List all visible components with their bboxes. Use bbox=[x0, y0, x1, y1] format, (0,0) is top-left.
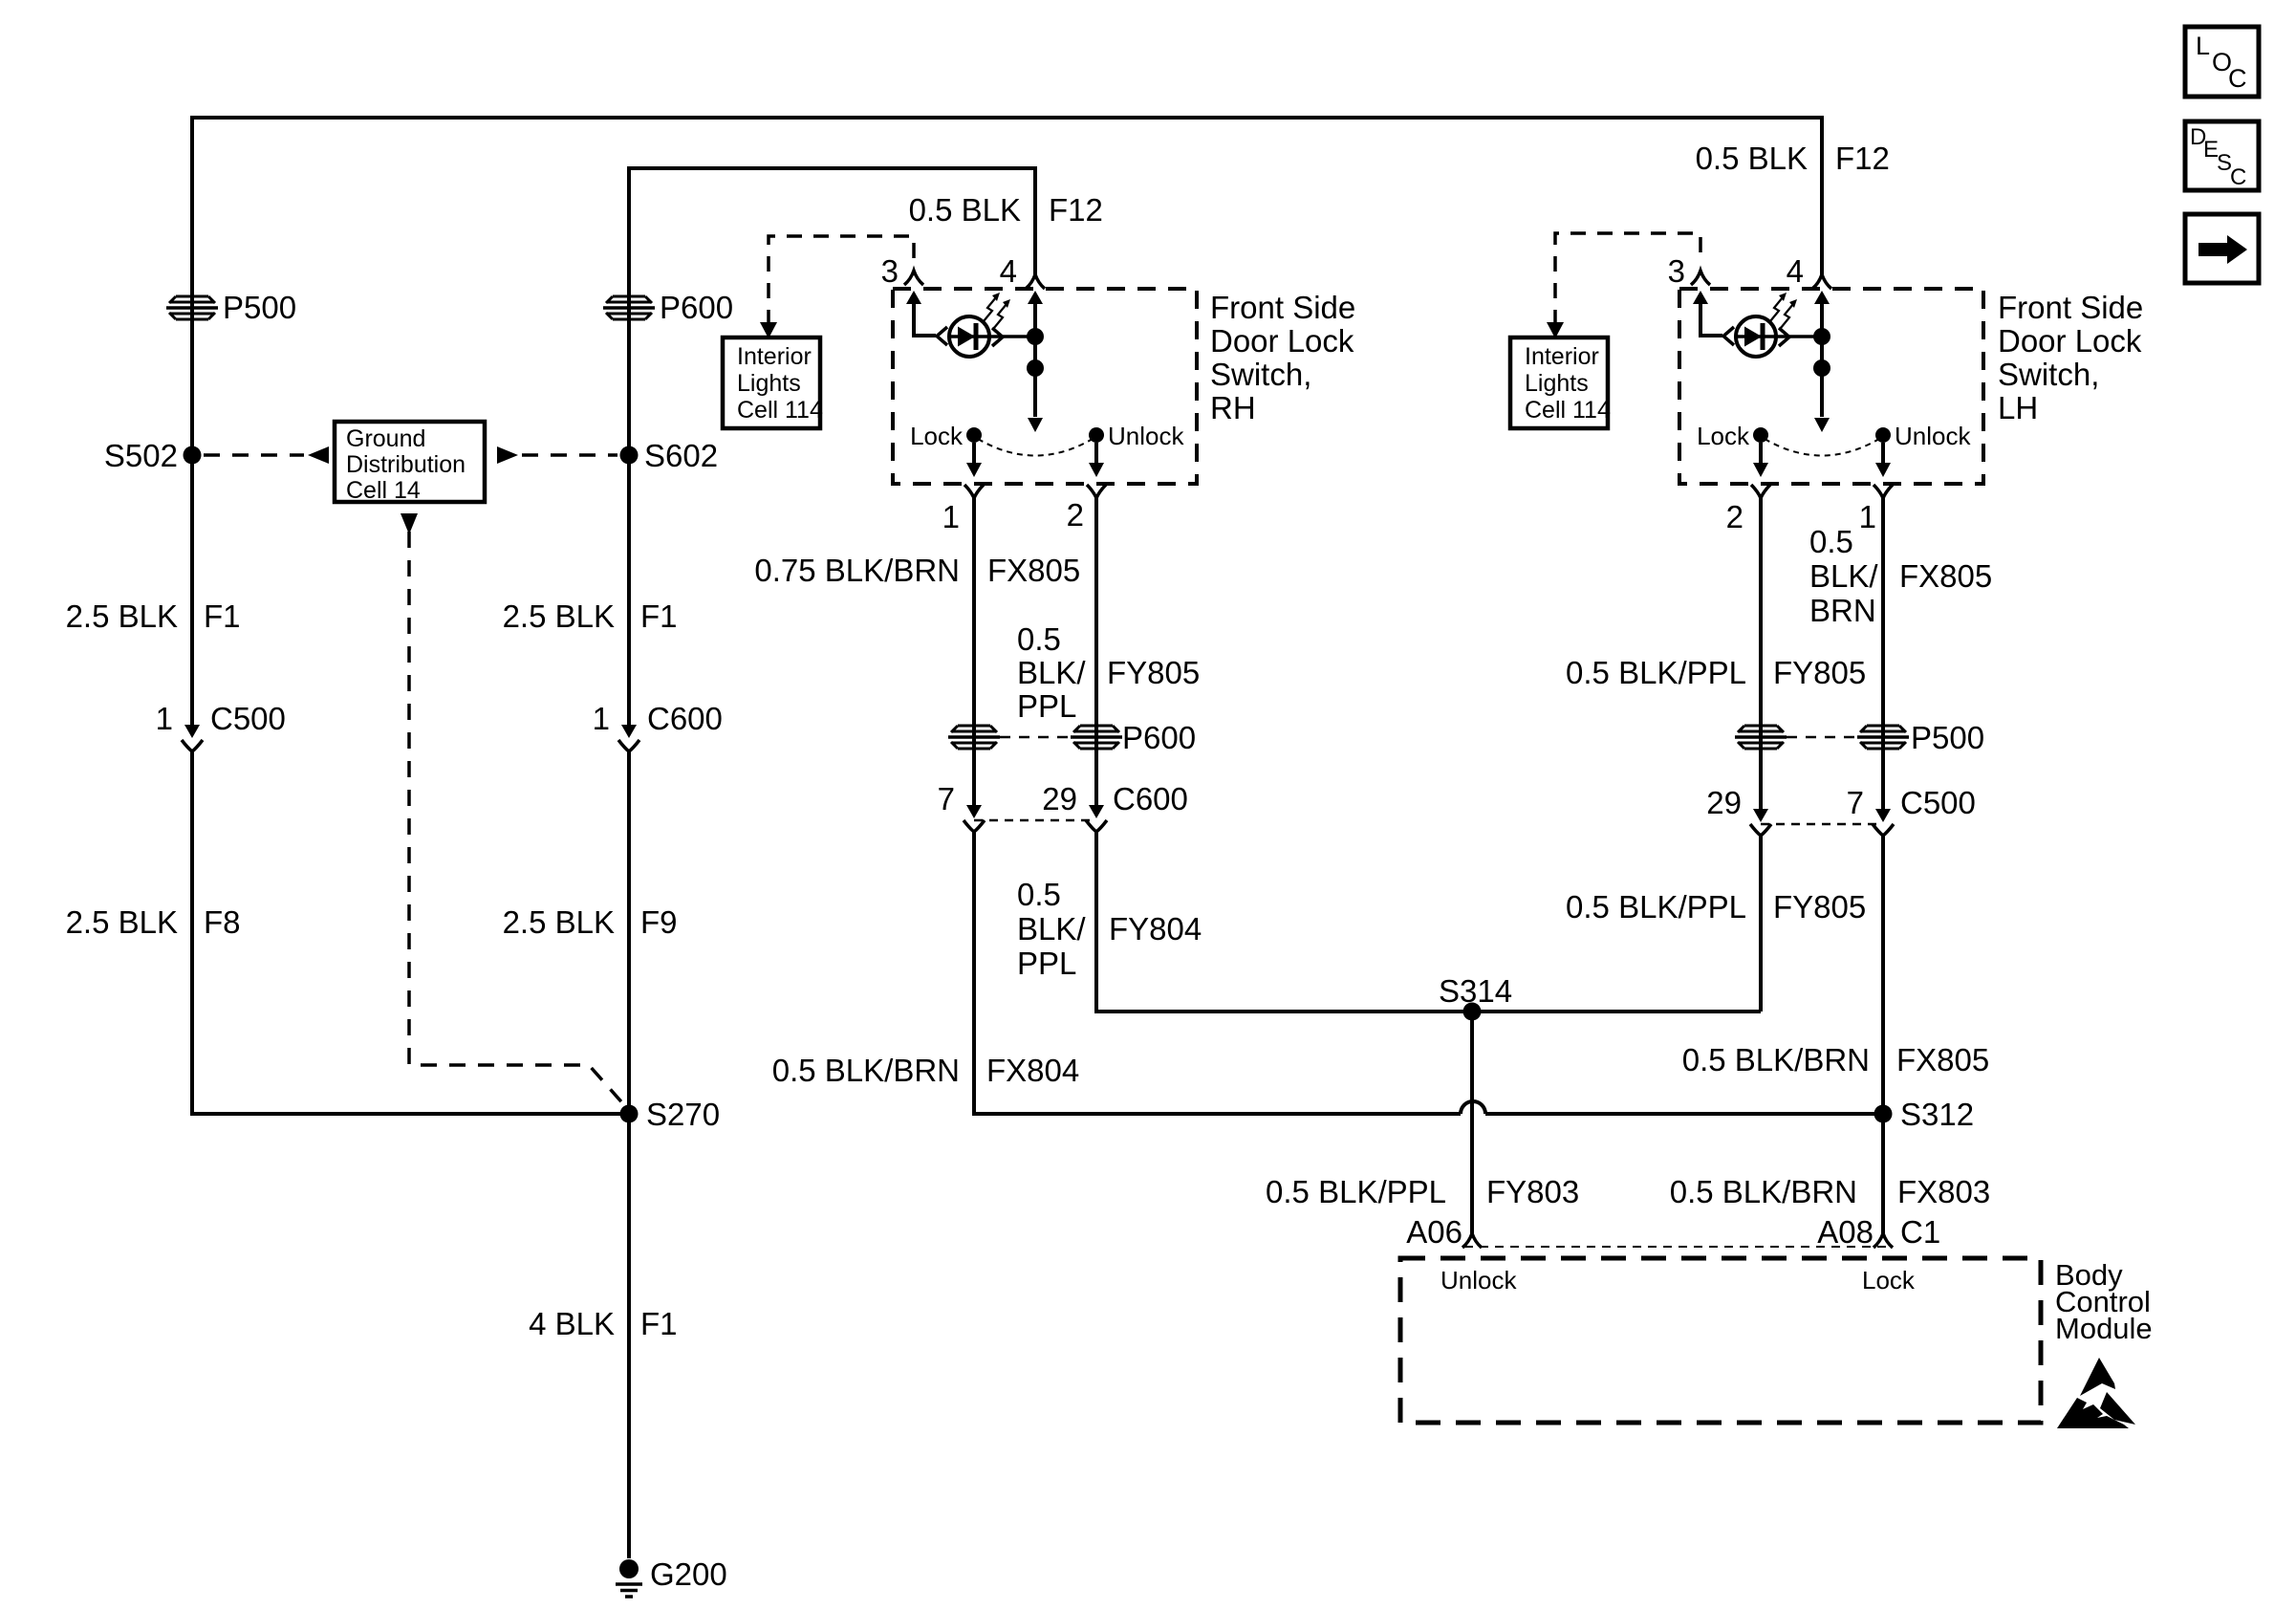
svg-text:C: C bbox=[2230, 164, 2246, 190]
wire left ground column lower (2.5 BLK F8 down to bottom corner and right to S270) bbox=[192, 751, 629, 1114]
svg-text:Cell 114: Cell 114 bbox=[1525, 397, 1611, 424]
svg-text:FY805: FY805 bbox=[1107, 655, 1200, 690]
ground distribution box Cell 14 bbox=[335, 422, 485, 502]
svg-text:4: 4 bbox=[1000, 253, 1017, 289]
svg-text:BLK/: BLK/ bbox=[1017, 911, 1086, 946]
pin 1 connector half below box bbox=[964, 485, 984, 498]
svg-text:FY804: FY804 bbox=[1109, 911, 1202, 946]
svg-text:A06: A06 bbox=[1406, 1214, 1462, 1250]
svg-text:1: 1 bbox=[156, 701, 173, 736]
svg-text:0.5: 0.5 bbox=[1017, 621, 1061, 657]
dashed link S502 to ground distribution box bbox=[204, 453, 304, 457]
wire LH pin1 FX805 to S312 bbox=[1881, 836, 1885, 1233]
svg-text:BRN: BRN bbox=[1809, 593, 1876, 628]
wire middle ground column upper (P600/S602 to C600) bbox=[627, 166, 631, 725]
pin 4 connector half bbox=[1026, 274, 1045, 289]
connector C600 pin 29 bbox=[1089, 805, 1104, 818]
svg-text:P600: P600 bbox=[660, 290, 733, 325]
svg-text:Lights: Lights bbox=[737, 370, 801, 397]
wire left ground column upper (P500/S502 to C500) bbox=[190, 116, 194, 725]
svg-text:1: 1 bbox=[593, 701, 610, 736]
wire S312 row right part bbox=[1485, 1112, 1883, 1116]
svg-text:FY803: FY803 bbox=[1486, 1174, 1579, 1209]
Lock contact bbox=[966, 427, 982, 443]
svg-text:0.5 BLK/BRN: 0.5 BLK/BRN bbox=[1682, 1042, 1870, 1077]
BCM pin C1 connector half bbox=[1874, 1233, 1893, 1248]
svg-text:F1: F1 bbox=[640, 598, 678, 634]
svg-text:C: C bbox=[2228, 64, 2247, 93]
grommet P500 LH pair bbox=[1735, 726, 1787, 749]
svg-text:2.5 BLK: 2.5 BLK bbox=[66, 598, 178, 634]
svg-text:Ground: Ground bbox=[346, 425, 425, 452]
svg-text:FX805: FX805 bbox=[987, 553, 1080, 588]
switch pin 4 branch with up arrow and junction dots bbox=[1033, 302, 1037, 417]
svg-text:FX803: FX803 bbox=[1897, 1174, 1990, 1209]
svg-text:Interior: Interior bbox=[737, 343, 812, 370]
svg-text:Lock: Lock bbox=[1862, 1266, 1916, 1295]
svg-text:F1: F1 bbox=[204, 598, 241, 634]
connector C600 middle column bbox=[621, 725, 637, 738]
BCM pin A06 connector half bbox=[1462, 1233, 1482, 1248]
pin 3 connector half bbox=[904, 271, 923, 285]
svg-text:7: 7 bbox=[938, 781, 955, 816]
svg-text:Door Lock: Door Lock bbox=[1210, 323, 1354, 359]
junction S312 bbox=[1874, 1105, 1893, 1123]
svg-text:Lock: Lock bbox=[910, 422, 964, 450]
svg-text:P500: P500 bbox=[1911, 720, 1984, 755]
svg-text:S602: S602 bbox=[644, 438, 718, 473]
wire LH pin4 drop from top bbox=[1820, 116, 1824, 274]
wire middle ground column lower (2.5 BLK F9 to S270 to G200) bbox=[627, 751, 631, 1558]
wire RH pin2 FY804 down bbox=[1094, 498, 1098, 807]
interior lights box LH bbox=[1510, 337, 1608, 428]
svg-text:L: L bbox=[2196, 32, 2210, 60]
svg-text:S314: S314 bbox=[1439, 973, 1512, 1009]
svg-text:C600: C600 bbox=[1113, 781, 1188, 816]
wire LH pin2 FY805 to S314 row bbox=[1759, 836, 1763, 1012]
svg-text:0.5 BLK/PPL: 0.5 BLK/PPL bbox=[1266, 1174, 1446, 1209]
BCM connector dashed line bbox=[1464, 1246, 1891, 1248]
svg-text:Cell 114: Cell 114 bbox=[737, 397, 823, 424]
body control module dashed box bbox=[1400, 1258, 2041, 1423]
connector C500 pin 7 bbox=[1875, 809, 1891, 822]
hop over FY803 bbox=[1461, 1101, 1485, 1114]
svg-text:G200: G200 bbox=[650, 1556, 727, 1592]
junction S502 bbox=[184, 446, 202, 465]
wire RH pin1 FX804 to S312 row bbox=[974, 832, 1461, 1114]
svg-text:0.5: 0.5 bbox=[1017, 877, 1061, 912]
svg-text:2.5 BLK: 2.5 BLK bbox=[66, 904, 178, 940]
svg-text:29: 29 bbox=[1042, 781, 1077, 816]
junction S270 bbox=[620, 1105, 639, 1123]
dashed link LH interior lights bbox=[1555, 233, 1700, 325]
ground G200 symbol bbox=[619, 1559, 639, 1578]
dashed link RH interior lights bbox=[769, 236, 914, 325]
grommet P600 RH pair bbox=[948, 726, 1000, 749]
switch LED anode branch to pin 3 with up arrow bbox=[914, 302, 936, 336]
svg-text:P500: P500 bbox=[223, 290, 296, 325]
switch LED bbox=[949, 316, 989, 357]
svg-text:PPL: PPL bbox=[1017, 688, 1076, 724]
door lock switch dashed box bbox=[893, 289, 1197, 484]
svg-text:Door Lock: Door Lock bbox=[1998, 323, 2142, 359]
LOC icon box bbox=[2185, 27, 2259, 97]
svg-text:C500: C500 bbox=[210, 701, 286, 736]
svg-text:Interior: Interior bbox=[1525, 343, 1599, 370]
svg-text:0.5 BLK/BRN: 0.5 BLK/BRN bbox=[1670, 1174, 1857, 1209]
svg-text:F1: F1 bbox=[640, 1306, 678, 1341]
svg-text:FX804: FX804 bbox=[986, 1053, 1079, 1088]
svg-text:S312: S312 bbox=[1900, 1097, 1974, 1132]
svg-text:Front Side: Front Side bbox=[1210, 290, 1355, 325]
svg-text:S270: S270 bbox=[646, 1097, 720, 1132]
svg-text:FX805: FX805 bbox=[1899, 558, 1992, 594]
svg-text:BLK/: BLK/ bbox=[1017, 655, 1086, 690]
svg-text:Front Side: Front Side bbox=[1998, 290, 2143, 325]
pin 2 connector half below box bbox=[1087, 485, 1106, 498]
svg-text:C500: C500 bbox=[1900, 785, 1976, 820]
connector C500 pin 29 bbox=[1753, 809, 1768, 822]
switch moving contact down arrow bbox=[1028, 418, 1043, 432]
DESC icon box bbox=[2185, 121, 2259, 190]
interior lights box RH bbox=[723, 337, 820, 428]
svg-text:PPL: PPL bbox=[1017, 946, 1076, 981]
svg-text:C1: C1 bbox=[1900, 1214, 1940, 1250]
svg-text:F9: F9 bbox=[640, 904, 678, 940]
Unlock contact bbox=[1089, 427, 1104, 443]
svg-text:0.5 BLK/PPL: 0.5 BLK/PPL bbox=[1566, 655, 1746, 690]
svg-text:29: 29 bbox=[1706, 785, 1742, 820]
svg-text:4 BLK: 4 BLK bbox=[529, 1306, 615, 1341]
svg-text:0.5: 0.5 bbox=[1809, 524, 1853, 559]
svg-text:C600: C600 bbox=[647, 701, 723, 736]
svg-text:0.5 BLK: 0.5 BLK bbox=[1696, 141, 1808, 176]
wire F12 inner horizontal (0.5 BLK to RH pin 4) bbox=[629, 168, 1035, 274]
svg-text:F12: F12 bbox=[1049, 192, 1103, 228]
svg-text:2.5 BLK: 2.5 BLK bbox=[503, 904, 615, 940]
wire F12 top horizontal (0.5 BLK to LH pin 4) bbox=[192, 116, 1822, 120]
svg-text:0.5 BLK/PPL: 0.5 BLK/PPL bbox=[1566, 889, 1746, 925]
wire FY803 S314 down to BCM A06 bbox=[1470, 1012, 1474, 1233]
svg-text:1: 1 bbox=[1859, 499, 1876, 534]
svg-text:Switch,: Switch, bbox=[1998, 357, 2099, 392]
svg-text:2: 2 bbox=[1726, 499, 1744, 534]
grommet P600 middle bbox=[603, 296, 655, 319]
svg-text:FY805: FY805 bbox=[1773, 889, 1866, 925]
contact wiper dashed arc bbox=[978, 439, 1093, 456]
svg-text:0.5 BLK/BRN: 0.5 BLK/BRN bbox=[772, 1053, 960, 1088]
svg-text:LH: LH bbox=[1998, 390, 2038, 425]
svg-text:7: 7 bbox=[1847, 785, 1864, 820]
svg-text:Cell 14: Cell 14 bbox=[346, 477, 421, 504]
dashed link ground distribution box to S602 bbox=[497, 446, 518, 464]
connector C600 pin 7 bbox=[966, 805, 982, 818]
svg-text:Lights: Lights bbox=[1525, 370, 1589, 397]
svg-text:2: 2 bbox=[1067, 497, 1084, 533]
svg-text:Module: Module bbox=[2055, 1312, 2153, 1345]
svg-text:Unlock: Unlock bbox=[1440, 1266, 1517, 1295]
wire LH pin2 lock down bbox=[1759, 498, 1763, 811]
svg-text:FY805: FY805 bbox=[1773, 655, 1866, 690]
dashed link ground distribution box down to S270 bbox=[401, 513, 418, 534]
svg-text:Unlock: Unlock bbox=[1108, 422, 1184, 450]
svg-text:P600: P600 bbox=[1122, 720, 1196, 755]
wire RH pin2 FY804 to S314 row bbox=[1096, 832, 1761, 1012]
svg-text:0.5 BLK: 0.5 BLK bbox=[909, 192, 1021, 228]
svg-text:A08: A08 bbox=[1817, 1214, 1874, 1250]
svg-text:S502: S502 bbox=[104, 438, 178, 473]
door lock switch LH (reuse) bbox=[1668, 253, 1983, 498]
svg-text:F12: F12 bbox=[1835, 141, 1890, 176]
forward arrow icon box bbox=[2185, 214, 2259, 283]
svg-text:1: 1 bbox=[942, 499, 960, 534]
svg-text:3: 3 bbox=[881, 253, 899, 289]
junction S602 bbox=[620, 446, 639, 465]
wire RH pin1 FX804 down bbox=[972, 498, 976, 807]
connector C500 left column bbox=[184, 725, 200, 738]
svg-text:Switch,: Switch, bbox=[1210, 357, 1311, 392]
svg-text:2.5 BLK: 2.5 BLK bbox=[503, 598, 615, 634]
svg-text:RH: RH bbox=[1210, 390, 1256, 425]
grommet P500 left bbox=[166, 296, 218, 319]
svg-text:F8: F8 bbox=[204, 904, 241, 940]
svg-text:Distribution: Distribution bbox=[346, 451, 466, 478]
wire LH pin1 unlock down bbox=[1881, 498, 1885, 811]
LED light arrows bbox=[984, 297, 996, 321]
ESD symbol bbox=[2080, 1358, 2115, 1396]
svg-text:FX805: FX805 bbox=[1896, 1042, 1989, 1077]
junction S314 bbox=[1463, 1003, 1482, 1021]
svg-text:0.75 BLK/BRN: 0.75 BLK/BRN bbox=[754, 553, 960, 588]
svg-text:BLK/: BLK/ bbox=[1809, 558, 1878, 594]
